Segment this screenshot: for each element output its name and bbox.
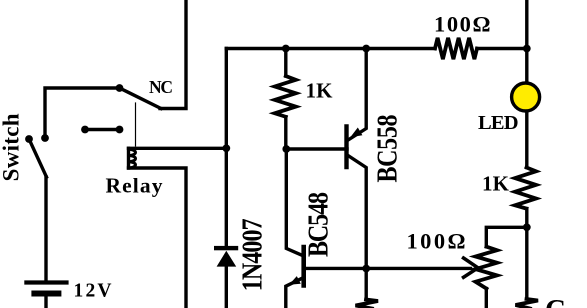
svg-text:BC558: BC558 (372, 115, 403, 183)
svg-text:100Ω: 100Ω (407, 228, 466, 253)
wire relay NC arm (120, 88, 162, 109)
wire BC548 base to pot wiper (305, 267, 471, 270)
resistor 1K left (284, 49, 287, 77)
wire 1K right to junction (525, 209, 528, 228)
svg-text:100Ω: 100Ω (434, 12, 491, 37)
resistor remnant bottom right (516, 299, 539, 308)
node: rail / 1K left (282, 45, 290, 53)
LED D1 (512, 83, 540, 111)
node: NO contact right (116, 126, 124, 134)
svg-text:NC: NC (149, 77, 173, 97)
wire right column top edge to rail (525, 0, 528, 49)
wire junction to pot top (486, 227, 527, 246)
wire coil bottom lead (129, 168, 187, 308)
wire common to relay arm pivot (45, 88, 120, 138)
wire rail to LED (525, 49, 528, 84)
node: rail / BC558 emitter (362, 45, 370, 53)
transistor Q2 BC548 emitter arrow (289, 276, 301, 285)
node: switch blade pivot (25, 135, 33, 143)
switch blade (29, 139, 47, 177)
wire battery negative down (44, 296, 47, 308)
node: coil top / bus junction (222, 144, 230, 152)
battery 12V short plate (31, 291, 61, 297)
wire top rail (226, 47, 435, 50)
battery 12V long plate (24, 280, 68, 284)
wire 1K bottom to BC558 base (286, 147, 347, 150)
resistor remnant bottom middle (356, 300, 379, 308)
wire coil top lead (129, 147, 227, 150)
transistor Q1 BC558 (344, 127, 348, 168)
relay mechanical link (135, 103, 137, 146)
potentiometer 100ohm zigzag (476, 247, 498, 289)
resistor 100ohm top zigzag (435, 38, 477, 59)
svg-text:Relay: Relay (106, 174, 163, 198)
svg-text:12V: 12V (74, 281, 112, 302)
wire bus vertical (rail corner to diode) (225, 49, 228, 246)
node: switch top terminal (41, 134, 49, 142)
diode D2 1N4007 (214, 246, 238, 250)
svg-text:Switch: Switch (0, 113, 23, 181)
node: 1K right bottom junction (523, 223, 531, 231)
node: 1K left bottom junction (282, 145, 290, 153)
transistor Q2 BC548 (301, 247, 306, 286)
svg-text:C: C (545, 294, 566, 308)
wire LED to 1K right (525, 111, 528, 168)
relay coil (127, 148, 130, 168)
wire switch to battery (44, 177, 47, 281)
wire BC558 collector junction down (365, 269, 368, 300)
resistor 1K right zigzag (515, 168, 536, 209)
node: BC558 collector / base wire (362, 265, 370, 273)
svg-text:1N4007: 1N4007 (237, 218, 268, 291)
wire NC vertical to top edge (160, 0, 186, 109)
relay NO contact segment (85, 128, 120, 131)
transistor Q1 BC558 emitter arrow (350, 128, 362, 138)
svg-text:BC548: BC548 (303, 192, 334, 257)
svg-text:1K: 1K (306, 79, 334, 103)
svg-text:LED: LED (478, 112, 519, 134)
svg-text:1K: 1K (482, 172, 510, 196)
wire 1K junction down to BC548 collector (286, 149, 302, 255)
wire diode to bottom edge (225, 266, 228, 308)
wire pot bottom to edge (485, 289, 488, 308)
node: NO contact left (81, 126, 89, 134)
node: rail / LED column (523, 45, 531, 53)
pot wiper arrowhead (464, 258, 479, 277)
node: relay arm pivot (116, 84, 124, 92)
wire right column junction down (525, 227, 528, 298)
